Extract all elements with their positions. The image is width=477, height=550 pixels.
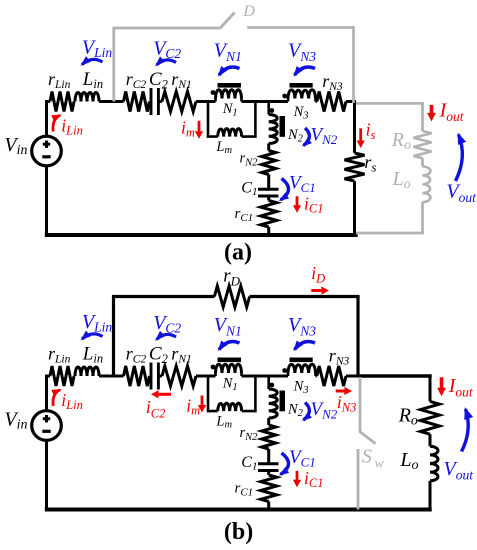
svg-text:w: w [375,457,385,472]
svg-text:(a): (a) [224,240,252,266]
svg-text:(b): (b) [224,519,253,545]
svg-text:D: D [242,3,255,20]
svg-text:S: S [362,446,372,468]
